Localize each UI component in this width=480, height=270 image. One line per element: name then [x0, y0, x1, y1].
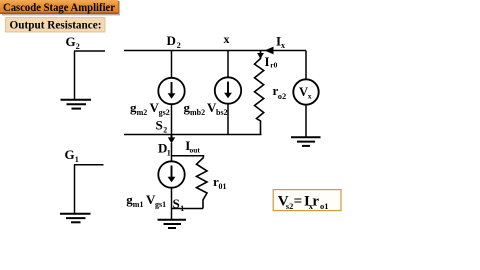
arrow into D1 (Iout direction): [168, 135, 175, 144]
wire below source 1: [171, 104, 173, 134]
wire Vx to ground: [305, 105, 307, 137]
svg-text:Output Resistance:: Output Resistance:: [10, 18, 102, 32]
node G2: [66, 34, 80, 51]
label ro2: [273, 83, 287, 101]
wire D2 branch: [171, 51, 173, 79]
svg-text:1: 1: [75, 155, 79, 164]
label gm1 Vgs1: [126, 192, 166, 209]
svg-text:out: out: [190, 145, 201, 154]
wire right drop to Vx: [305, 51, 307, 80]
label ro1: [213, 174, 227, 191]
wire below source 2: [227, 104, 229, 135]
svg-text:o2: o2: [278, 91, 287, 101]
svg-text:x: x: [308, 92, 312, 101]
label gm2 Vgs2: [130, 100, 170, 117]
ground G2: [61, 100, 92, 109]
wire D1 branch to ro1 top: [172, 156, 204, 158]
subtitle box: [6, 18, 106, 32]
current source gmb2Vbs2: [215, 77, 241, 103]
svg-text:G: G: [66, 34, 76, 49]
node G1: [65, 147, 79, 164]
title banner: [0, 0, 120, 15]
label Ir0 with down arrow: [257, 53, 278, 70]
svg-text:o1: o1: [320, 201, 329, 211]
wire top rail: [124, 50, 306, 52]
svg-text:x: x: [281, 41, 285, 50]
svg-text:bs2: bs2: [216, 108, 228, 117]
wire ro1 bottom: [172, 208, 204, 210]
svg-text:2: 2: [163, 126, 167, 135]
wire x branch: [227, 51, 229, 78]
svg-text:x: x: [224, 32, 230, 46]
svg-text:01: 01: [219, 182, 227, 191]
wire bottom rail S2: [124, 134, 262, 136]
svg-text:1: 1: [167, 149, 171, 158]
label Ix: [276, 34, 285, 51]
label Iout: [185, 138, 200, 154]
svg-text:m1: m1: [133, 200, 144, 209]
svg-text:I: I: [265, 54, 270, 69]
equation box Vs2 = Ix ro1: [273, 190, 341, 211]
current source gm1Vgs1: [158, 161, 184, 187]
node D2: [167, 33, 181, 50]
svg-text:s2: s2: [286, 201, 294, 211]
svg-text:V: V: [299, 85, 308, 99]
wire G1 down: [74, 165, 76, 213]
ground S1: [158, 220, 187, 228]
label gmb2 Vbs2: [184, 100, 228, 117]
node S2: [156, 118, 168, 135]
ground G1: [60, 214, 91, 223]
svg-text:Cascode Stage Amplifier: Cascode Stage Amplifier: [3, 0, 116, 14]
svg-text:2: 2: [76, 42, 80, 51]
svg-text:2: 2: [177, 41, 181, 50]
arrow Ix (pointing left on top rail): [265, 47, 274, 55]
wire G2 down: [74, 51, 76, 99]
svg-text:mb2: mb2: [190, 108, 205, 117]
svg-text:S: S: [156, 118, 163, 133]
wire below source 3 to ground: [171, 188, 173, 220]
svg-text:D: D: [167, 33, 176, 48]
wire D1 down through source to ground: [171, 143, 173, 162]
node D1: [158, 141, 171, 158]
resistor ro2: [255, 51, 264, 135]
svg-text:=: =: [294, 193, 303, 209]
svg-text:G: G: [65, 147, 75, 162]
wire G1 stub: [74, 164, 104, 166]
svg-text:r: r: [312, 193, 319, 209]
ground Vx: [291, 137, 321, 146]
node S1: [173, 196, 185, 213]
wire G2 stub: [74, 50, 105, 52]
svg-text:m2: m2: [137, 108, 148, 117]
resistor ro1: [197, 158, 208, 209]
svg-text:gs1: gs1: [155, 200, 166, 209]
voltage source Vx: [293, 79, 318, 104]
current source gm2Vgs2 (U-shaped circle with down arrow): [158, 78, 184, 104]
svg-text:r0: r0: [270, 61, 277, 70]
svg-text:gs2: gs2: [159, 108, 170, 117]
